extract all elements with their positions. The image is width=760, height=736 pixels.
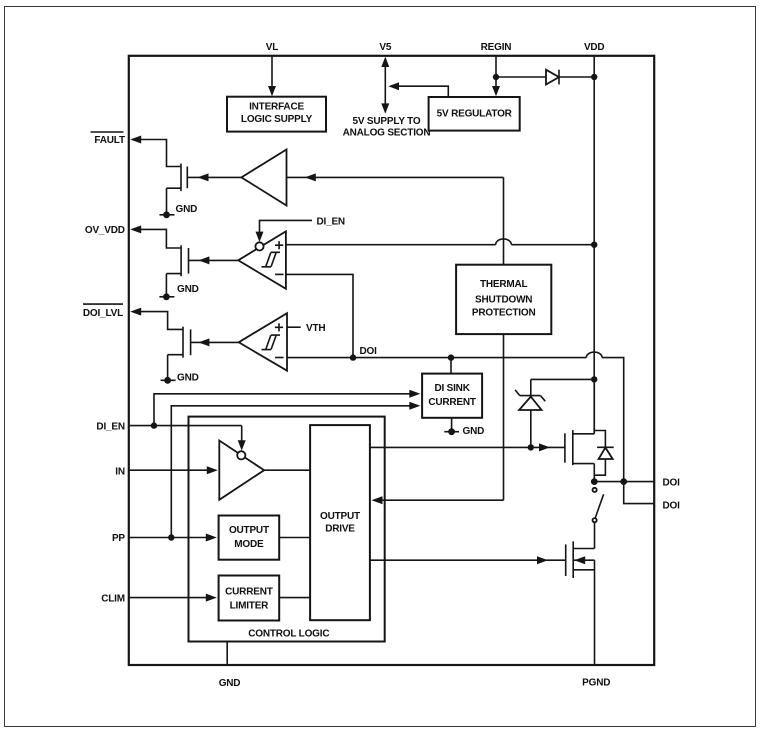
svg-text:DRIVE: DRIVE — [325, 523, 355, 534]
svg-text:SHUTDOWN: SHUTDOWN — [475, 294, 532, 305]
node junction REGIN — [493, 74, 499, 80]
transistor Q1 fault — [180, 164, 182, 192]
svg-text:DI SINK: DI SINK — [434, 383, 470, 394]
transistor Q3 doi_lvl — [182, 327, 184, 358]
wire VTH stub — [287, 326, 301, 328]
wire control logic ground stub — [226, 642, 228, 666]
body arrow M2 — [574, 556, 585, 564]
node junction DOI-comp2 — [350, 354, 356, 360]
switch S1 — [593, 488, 597, 492]
wire LS gate drive — [370, 559, 566, 561]
ground Q3 — [161, 379, 176, 381]
minus input U2 — [275, 273, 284, 275]
svg-text:5V REGULATOR: 5V REGULATOR — [437, 108, 513, 119]
svg-text:MODE: MODE — [234, 539, 264, 550]
body diode M1 — [594, 431, 613, 448]
svg-text:CLIM: CLIM — [101, 593, 125, 604]
wire U2 minus to DOI — [286, 274, 353, 357]
node junction VDD-zener — [591, 376, 597, 382]
wire DOI_LVL pin — [141, 312, 183, 330]
wire V5 double arrow — [384, 64, 386, 106]
svg-text:CONTROL LOGIC: CONTROL LOGIC — [248, 629, 329, 640]
block INTERFACE LOGIC SUPPLY — [227, 97, 326, 132]
block 5V REGULATOR — [429, 97, 520, 131]
svg-text:DOI: DOI — [663, 500, 681, 511]
wire mode to drive — [279, 537, 310, 539]
wire DI_EN branch to DI SINK — [154, 394, 410, 426]
svg-text:REGIN: REGIN — [481, 42, 512, 53]
svg-text:CURRENT: CURRENT — [225, 587, 273, 598]
wire CLIM pin — [129, 597, 206, 599]
pin DOI_LVL overline — [83, 303, 123, 305]
wire FAULT pin — [141, 140, 181, 167]
wire DOI net — [287, 352, 654, 503]
svg-text:GND: GND — [219, 678, 241, 689]
svg-text:VTH: VTH — [306, 323, 325, 334]
node junction output — [591, 478, 598, 485]
wire DOI pin1 — [594, 481, 654, 483]
node junction zener-gate — [528, 444, 534, 450]
svg-text:PGND: PGND — [582, 678, 610, 689]
svg-text:FAULT: FAULT — [94, 135, 125, 146]
node arrow into OUTPUT DRIVE right edge — [372, 496, 383, 504]
svg-text:DI_EN: DI_EN — [317, 216, 345, 227]
svg-text:ANALOG SECTION: ANALOG SECTION — [343, 128, 431, 139]
wire DI_EN into U2 — [260, 220, 313, 234]
ground Q1 — [160, 214, 175, 216]
wire diode to VDD — [559, 76, 594, 78]
pin FAULT overline — [91, 131, 124, 133]
ground Q2 — [159, 296, 174, 298]
svg-text:DOI: DOI — [360, 346, 378, 357]
wire inverter out — [264, 469, 310, 471]
transistor Q2 ov_vdd — [180, 245, 182, 276]
plus input U2 — [275, 241, 283, 249]
wire regulator to V5 — [390, 86, 448, 97]
enable bubble U2 — [255, 242, 263, 250]
svg-text:OV_VDD: OV_VDD — [85, 225, 125, 236]
node junction VDD sense — [591, 242, 597, 248]
svg-text:VDD: VDD — [584, 42, 605, 53]
op-amp U1 buffer — [241, 150, 286, 206]
block OUTPUT DRIVE — [310, 425, 370, 620]
wire HS gate drive — [370, 446, 565, 448]
wire PP branch to DI SINK — [171, 406, 409, 538]
transistor M1 high-side — [564, 433, 566, 462]
svg-text:OUTPUT: OUTPUT — [320, 511, 360, 522]
svg-text:VL: VL — [266, 42, 278, 53]
svg-text:OUTPUT: OUTPUT — [229, 525, 269, 536]
wire PP pin — [129, 537, 206, 539]
diode D1 — [546, 70, 559, 85]
block THERMAL SHUTDOWN PROTECTION — [456, 265, 551, 334]
block CURRENT LIMITER — [219, 576, 280, 621]
enable bubble U4 — [237, 451, 245, 459]
wire thermal/buffer vertical net — [380, 177, 504, 500]
wire buffer output to Q1 gate — [187, 176, 241, 178]
node junction DOI-disink — [448, 354, 454, 360]
svg-text:PP: PP — [112, 533, 125, 544]
wire U2 plus sense to VDD — [286, 239, 594, 245]
wire OV_VDD pin — [141, 229, 181, 248]
wire REGIN drop — [495, 56, 497, 88]
node junction DOI sense — [620, 478, 627, 485]
wire REGIN to diode — [496, 76, 546, 78]
svg-text:THERMAL: THERMAL — [480, 279, 528, 290]
svg-text:LOGIC SUPPLY: LOGIC SUPPLY — [241, 114, 313, 125]
svg-text:CURRENT: CURRENT — [428, 397, 476, 408]
wire IN pin — [129, 469, 207, 471]
minus input U3 — [275, 357, 284, 359]
svg-text:DI_EN: DI_EN — [96, 421, 124, 432]
op-amp U2 comparator — [238, 231, 286, 288]
hysteresis symbol U3 — [262, 335, 281, 350]
svg-text:INTERFACE: INTERFACE — [249, 101, 304, 112]
wire buffer input — [287, 176, 504, 178]
op-amp U3 comparator — [239, 313, 287, 371]
svg-text:DOI: DOI — [663, 477, 681, 488]
zener diode Z1 — [515, 379, 545, 401]
block DI SINK CURRENT — [422, 374, 482, 418]
wire zener top link — [531, 378, 594, 380]
wire limiter to drive — [279, 597, 310, 599]
transistor M2 low-side — [565, 544, 567, 576]
node junction PP — [168, 534, 174, 540]
svg-text:GND: GND — [177, 372, 199, 383]
main block boundary — [129, 56, 654, 665]
svg-text:IN: IN — [115, 467, 125, 478]
wire DI_EN pin — [129, 426, 242, 442]
wire VDD rail vertical — [593, 56, 595, 434]
ground DI SINK — [451, 418, 453, 432]
svg-text:5V SUPPLY TO: 5V SUPPLY TO — [352, 116, 420, 127]
svg-text:GND: GND — [177, 284, 199, 295]
plus input U3 — [275, 323, 283, 331]
block CONTROL LOGIC — [189, 417, 385, 642]
wire comparator3 output to Q3 gate — [191, 341, 239, 343]
wire comparator2 output to Q2 gate — [189, 259, 239, 261]
node junction DI_EN — [151, 422, 157, 428]
svg-text:LIMITER: LIMITER — [230, 601, 270, 612]
block OUTPUT MODE — [219, 516, 280, 560]
svg-text:PROTECTION: PROTECTION — [472, 308, 536, 319]
wire DOI to DI SINK — [450, 358, 452, 374]
svg-text:DOI_LVL: DOI_LVL — [83, 308, 123, 319]
wire VL drop — [271, 56, 273, 88]
svg-text:V5: V5 — [379, 42, 391, 53]
svg-text:GND: GND — [463, 426, 485, 437]
op-amp U4 inverter — [219, 441, 264, 500]
hysteresis symbol U2 — [262, 252, 281, 266]
svg-text:GND: GND — [176, 204, 198, 215]
node junction VDD top — [591, 74, 597, 80]
